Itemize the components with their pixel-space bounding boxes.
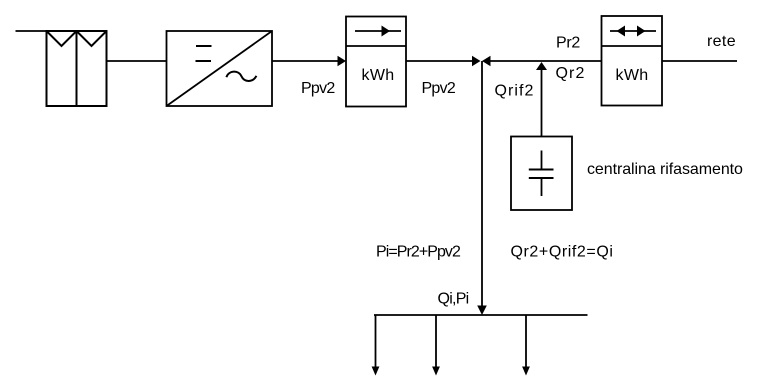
- svg-text:centralina rifasamento: centralina rifasamento: [587, 161, 743, 178]
- svg-text:Ppv2: Ppv2: [301, 80, 335, 97]
- svg-text:kWh: kWh: [362, 67, 395, 84]
- svg-text:Qrif2: Qrif2: [495, 83, 535, 100]
- svg-text:Ppv2: Ppv2: [422, 80, 456, 97]
- svg-text:Pi=Pr2+Ppv2: Pi=Pr2+Ppv2: [376, 244, 461, 261]
- svg-text:kWh: kWh: [616, 67, 649, 84]
- svg-text:Qr2: Qr2: [556, 65, 586, 82]
- svg-text:Pr2: Pr2: [556, 35, 580, 52]
- svg-text:rete: rete: [707, 33, 736, 50]
- svg-text:Qi,Pi: Qi,Pi: [438, 291, 469, 308]
- svg-text:Qr2+Qrif2=Qi: Qr2+Qrif2=Qi: [511, 244, 614, 261]
